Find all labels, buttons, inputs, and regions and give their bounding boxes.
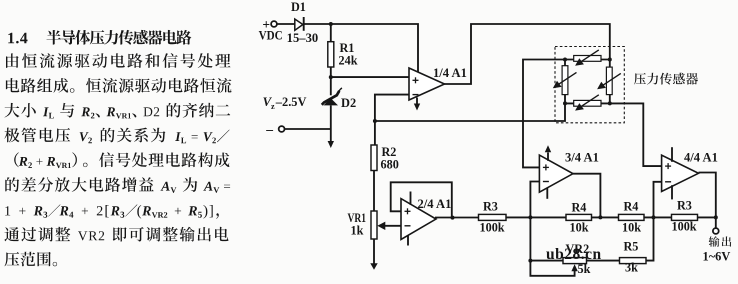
op-amp U1 1/4 A1 (409, 66, 467, 100)
svg-text:3/4 A1: 3/4 A1 (565, 151, 599, 165)
svg-text:24k: 24k (339, 54, 358, 68)
wire U1 - input feedback (375, 95, 409, 121)
svg-text:VDC: VDC (259, 29, 283, 43)
svg-text:15–30: 15–30 (287, 31, 319, 45)
bridge wire bottom (565, 102, 610, 104)
svg-text:100k: 100k (672, 220, 697, 234)
wire node E to R4a (530, 216, 566, 218)
node B junction (R1 bottom / D2 / op-amp + input) (329, 75, 333, 79)
strain gauge left (bridge) (553, 66, 577, 95)
wire node C to bridge bottom-left (375, 103, 565, 121)
wire VR2 to R5 (587, 260, 620, 262)
wire R3a to node E (506, 216, 530, 218)
resistor R5 3k (620, 239, 647, 274)
wire U2 + input feedback loop (391, 182, 452, 217)
potentiometer VR2 5k (563, 242, 591, 276)
output terminal 输出 1~6V (703, 217, 732, 263)
wire bridge BR to U4 + input (610, 103, 662, 166)
wire U2 output (435, 217, 479, 219)
bridge wire left (564, 60, 566, 104)
svg-text:5k: 5k (578, 262, 591, 276)
resistor R2 680 (371, 121, 399, 211)
op-amp U2 supply stubs (408, 192, 411, 246)
wire U1 output up to bridge drive rail (445, 24, 610, 84)
V- rail arrow below VR1 (370, 239, 377, 270)
wire U4 output to node H (699, 173, 716, 218)
resistor R4a 10k (566, 200, 592, 234)
VR1 wiper arrow to U2 - input (377, 222, 401, 230)
op-amp U2 2/4 A1 (401, 197, 451, 240)
bridge wire top (565, 59, 610, 61)
bridge wire right (609, 60, 611, 104)
zener diode D2 (322, 77, 356, 129)
diode D1 (291, 0, 306, 31)
node E junction (R3a / R4a / U3 - input) (528, 215, 532, 219)
bridge corner junctions (563, 58, 612, 106)
svg-text:R4: R4 (572, 200, 587, 214)
terminal VDC- (265, 122, 284, 137)
resistor R3a 100k (479, 200, 507, 235)
svg-text:D1: D1 (291, 0, 306, 14)
svg-text:2/4 A1: 2/4 A1 (418, 197, 452, 211)
node G junction (R4b / R3b / R5 / U4 - input) (652, 215, 656, 219)
svg-text:4/4 A1: 4/4 A1 (684, 151, 718, 165)
wire node B to op-amp + input (331, 76, 409, 78)
svg-text:R5: R5 (624, 239, 639, 253)
svg-text:1/4 A1: 1/4 A1 (433, 66, 467, 80)
svg-text:D2: D2 (341, 96, 356, 110)
strain gauge bottom (bridge) (574, 95, 601, 111)
svg-text:R4: R4 (624, 200, 639, 214)
svg-text:680: 680 (381, 158, 399, 172)
node I junction (VR2 left / wiper loop) (528, 259, 532, 263)
resistor R4b 10k (619, 200, 645, 235)
V- rail arrow below D2 branch (328, 129, 334, 148)
node A junction (top of R1) (329, 22, 333, 26)
descriptive text column (4, 30, 231, 266)
svg-text:ub28.cn: ub28.cn (546, 246, 602, 263)
wire node I to VR2 (530, 260, 563, 262)
strain gauge right (bridge) (597, 67, 621, 95)
svg-text:3k: 3k (625, 261, 638, 275)
svg-text:R3: R3 (677, 198, 692, 212)
svg-text:10k: 10k (570, 221, 589, 235)
wire U4 - input to node G (654, 182, 662, 218)
node H junction (R3b / U4 output / output terminal) (714, 215, 718, 219)
wire U3 - input to node E (530, 182, 539, 218)
svg-text:R3: R3 (483, 200, 498, 214)
wire R4b to node G (644, 216, 672, 218)
svg-text:1~6V: 1~6V (703, 250, 731, 264)
svg-text:100k: 100k (480, 221, 505, 235)
resistor R3b 100k (672, 198, 698, 233)
wire VDC+ to D1 (277, 23, 296, 25)
label 压力传感器 (634, 73, 698, 85)
terminal VDC+ (262, 17, 277, 32)
svg-text:–2.5V: –2.5V (275, 95, 307, 109)
wire node E down to VR2 (529, 217, 531, 260)
wire VDC- to zener branch (285, 128, 331, 130)
VR2 wiper arrow with return loop to node I (530, 261, 577, 276)
op-amp U3 bottom supply stub (546, 188, 548, 199)
op-amp U4 4/4 A1 (662, 151, 718, 192)
watermark ub28.cn (546, 246, 602, 263)
wire R5 up to node G (646, 217, 654, 260)
wire node A to op-amp V+ (331, 24, 418, 72)
node D junction (U2 output / R3a) (451, 216, 455, 220)
node F junction (R4a / R4b / U3 output) (598, 215, 602, 219)
potentiometer VR1 1k (348, 211, 378, 239)
op-amp U3 3/4 A1 (539, 151, 599, 193)
svg-text:1k: 1k (351, 224, 364, 238)
pressure sensor dashed enclosure 压力传感器 (555, 47, 624, 123)
strain gauge top (bridge) (574, 50, 601, 66)
wire R3b to node H (698, 216, 716, 218)
svg-text:10k: 10k (622, 220, 641, 234)
node C junction (feedback / R2 / bridge BL) (373, 119, 377, 123)
op-amp U3 V+ supply arrow up (545, 145, 551, 161)
wire U3 output to node F (573, 174, 600, 218)
wire R4a to node F (592, 216, 619, 218)
resistor R1 24k (328, 24, 358, 77)
label VDC 15-30 (259, 29, 319, 45)
wire D1 to node A (304, 23, 331, 25)
svg-text:–: – (265, 122, 273, 137)
op-amp U4 supply stubs (671, 147, 673, 199)
wire bridge TL to U3 + input (523, 60, 565, 168)
op-amp U1 V- supply arrow (414, 98, 420, 111)
label Vz=-2.5V (263, 95, 307, 111)
svg-text:z: z (271, 102, 275, 111)
